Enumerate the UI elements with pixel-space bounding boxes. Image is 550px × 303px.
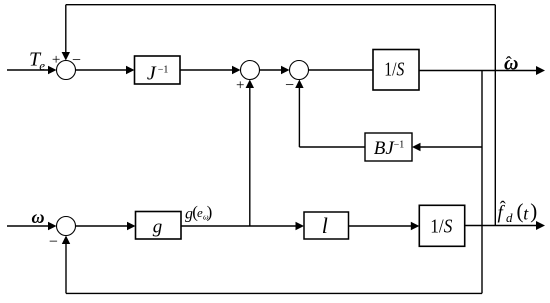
svg-text:BJ: BJ [374,138,396,159]
svg-text:−: − [49,234,58,251]
svg-text:ω: ω [32,207,45,227]
wire: omega-hat vertical riser down (to BJ^-1 tap and bottom feedback) [481,71,483,294]
svg-text:g: g [153,217,163,238]
wire: sum4 to block g [76,225,130,227]
wire: omega-hat output line [419,70,538,72]
wire: g-output tap up into summing junction 2 [249,86,251,227]
summing junction 3 [290,61,309,80]
block 1/S (bottom integrator) [419,205,464,246]
wire: f_d(t) output line [465,225,538,227]
wire: BJ^-1 output up into summing junction 3 [298,86,300,148]
svg-text:ˆ: ˆ [506,53,512,73]
svg-text:1/S: 1/S [384,58,404,80]
summing junction 1 [57,61,76,80]
wire: sum1 to J^-1 [76,69,129,71]
wire: sum3 to integrator 1/S [309,69,374,71]
summing junction 4 [57,217,76,236]
wire: J^-1 to summing junction 2 [180,69,234,71]
wire: l to integrator 1/S (bottom) [349,225,414,227]
svg-text:l: l [322,213,328,238]
svg-text:+: + [52,52,60,68]
svg-text:+: + [236,78,244,94]
wire: g to block l [181,225,298,227]
svg-text:−: − [72,52,81,69]
wire: BJ^-1 output to the left [299,146,365,148]
svg-text:−1: −1 [394,139,405,150]
wire: Te input arrow [7,69,50,71]
svg-text:): ) [530,199,537,223]
wire: bottom feedback up into summing junction 4 [65,242,67,294]
wire: f_d feedback vertical riser (right side) [494,5,496,226]
wire: omega input arrow [7,225,50,227]
block 1/S (top integrator) [373,50,419,91]
svg-text:J: J [147,63,157,85]
block g [136,212,182,240]
svg-text:−: − [285,77,294,94]
svg-text:−1: −1 [158,64,169,75]
wire: bottom feedback horizontal [66,292,482,294]
svg-text:ˆ: ˆ [500,198,506,218]
block BJ^-1 [365,133,412,161]
summing junction 2 [241,61,260,80]
block l [304,212,349,239]
svg-text:d: d [506,210,513,225]
svg-text:1/S: 1/S [430,215,452,237]
svg-text:e: e [39,58,45,73]
wire: tap from riser into BJ^-1 [418,146,482,148]
svg-text:): ) [207,203,213,222]
block J^-1 [135,56,181,84]
wire: sum2 to summing junction 3 [260,69,284,71]
wire: feedback drop into summing junction 1 [65,5,67,54]
wire: top feedback horizontal [66,4,496,6]
